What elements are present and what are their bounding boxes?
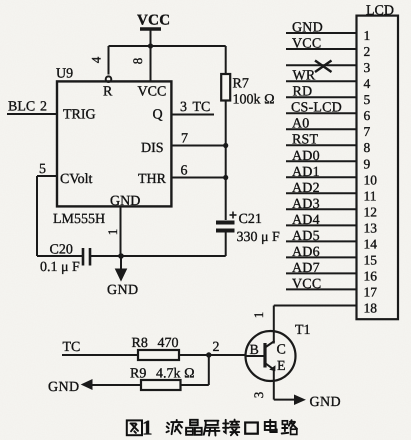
no-connect X on pin3: [315, 61, 332, 73]
wire pin18 to T1 collector: [274, 305, 357, 307]
junction DIS / R7: [223, 143, 228, 148]
wire VCC rail from pin4 to R7: [109, 45, 226, 47]
char kou: [245, 423, 258, 434]
LCD pin numbers 1-18: [364, 28, 378, 315]
svg-text:5: 5: [364, 92, 371, 107]
svg-text:VCC: VCC: [138, 85, 167, 100]
inverter bubble on R pin: [106, 76, 112, 82]
svg-text:T1: T1: [295, 323, 311, 338]
svg-text:R9: R9: [130, 367, 146, 382]
wire pin4 WR: [286, 80, 357, 82]
wire left vertical down from CVolt: [36, 176, 38, 256]
svg-text:RST: RST: [292, 133, 319, 148]
wire Q output pin 3 to TC: [171, 114, 214, 116]
wire R9 to ground arrow: [92, 384, 141, 386]
svg-text:R7: R7: [233, 77, 249, 92]
wire R9 branch vertical: [208, 355, 210, 385]
svg-text:AD7: AD7: [292, 261, 320, 276]
svg-text:17: 17: [364, 284, 378, 299]
svg-text:3: 3: [251, 392, 266, 399]
svg-text:4: 4: [89, 56, 104, 63]
char lu: [282, 420, 297, 434]
wire THR pin 6: [171, 177, 225, 179]
op-amp U9 LM555H body: [57, 81, 171, 206]
svg-text:LM555H: LM555H: [53, 212, 105, 227]
svg-text:R: R: [103, 85, 113, 100]
svg-text:GND: GND: [292, 21, 323, 36]
svg-text:DIS: DIS: [141, 141, 164, 156]
connector LCD box: [357, 16, 399, 320]
svg-text:AD3: AD3: [292, 197, 320, 212]
svg-text:1: 1: [142, 416, 153, 440]
svg-text:AD4: AD4: [292, 213, 320, 228]
capacitor C20: [83, 248, 90, 266]
svg-text:5: 5: [39, 162, 46, 177]
svg-text:TC: TC: [193, 100, 211, 115]
wire BLC input to TRIG pin 2: [7, 113, 57, 115]
svg-text:BLC: BLC: [8, 100, 35, 115]
svg-text:AD0: AD0: [292, 149, 320, 164]
svg-text:A0: A0: [292, 117, 310, 132]
svg-text:B: B: [250, 343, 259, 358]
wire pin13 AD4: [286, 224, 357, 226]
wire pin1 GND: [286, 32, 357, 34]
svg-text:2: 2: [364, 44, 371, 59]
svg-text:Q: Q: [153, 108, 163, 123]
svg-text:RD: RD: [293, 85, 313, 100]
svg-text:7: 7: [181, 132, 188, 147]
svg-text:TRIG: TRIG: [63, 108, 96, 123]
svg-text:LCD: LCD: [366, 4, 394, 19]
svg-text:4.7k Ω: 4.7k Ω: [156, 367, 195, 382]
char dian: [265, 420, 277, 432]
wire T1 collector vertical: [273, 306, 275, 344]
svg-text:6: 6: [181, 164, 188, 179]
svg-text:1: 1: [105, 229, 120, 236]
svg-text:E: E: [277, 359, 286, 374]
wire DIS pin 7: [171, 145, 225, 147]
wire pin7 A0: [286, 128, 357, 130]
svg-text:2: 2: [213, 340, 220, 355]
wire emitter to ground arrow: [274, 399, 294, 401]
wire pin10 AD1: [286, 176, 357, 178]
svg-text:9: 9: [364, 156, 371, 171]
svg-text:AD1: AD1: [292, 165, 320, 180]
svg-text:6: 6: [364, 108, 371, 123]
wire pin9 AD0: [286, 160, 357, 162]
svg-text:GND: GND: [48, 380, 80, 395]
svg-text:330 μ F: 330 μ F: [237, 230, 281, 245]
svg-text:C: C: [277, 343, 286, 358]
svg-text:VCC: VCC: [292, 277, 321, 292]
resistor R8: [138, 350, 179, 360]
junction pin1 / rail: [118, 253, 124, 259]
svg-text:7: 7: [364, 124, 371, 139]
char ye: [167, 420, 183, 434]
svg-text:GND: GND: [110, 194, 140, 209]
svg-text:3: 3: [364, 60, 371, 75]
LCD pin rows: [274, 33, 357, 306]
svg-text:R8: R8: [132, 336, 148, 351]
char jie: [223, 420, 239, 436]
wire pin14 AD5: [286, 240, 357, 242]
C21 plus sign: [230, 212, 237, 219]
wire pin4 stem: [108, 46, 110, 75]
svg-text:8: 8: [130, 58, 145, 65]
svg-text:CVolt: CVolt: [60, 172, 93, 187]
char tu: [127, 420, 142, 435]
svg-text:14: 14: [364, 236, 378, 251]
svg-text:C21: C21: [239, 212, 262, 227]
svg-text:CS-LCD: CS-LCD: [291, 101, 342, 116]
svg-text:470: 470: [158, 336, 179, 351]
svg-text:8: 8: [364, 140, 371, 155]
capacitor C21 electrolytic: [216, 223, 235, 257]
wire CVolt pin 5: [37, 175, 57, 177]
svg-text:2: 2: [40, 100, 47, 115]
svg-text:VCC: VCC: [137, 13, 170, 29]
wire base from junction to T1: [209, 354, 247, 356]
svg-text:10: 10: [364, 172, 378, 187]
ground arrow left: [81, 379, 93, 390]
wire pin17 VCC: [286, 288, 357, 290]
wire T1 emitter down: [273, 381, 275, 400]
junction at VCC stem and rail: [148, 43, 153, 48]
junction THR / R7: [223, 175, 228, 180]
svg-text:13: 13: [364, 220, 378, 235]
svg-text:GND: GND: [310, 395, 342, 410]
svg-text:100k Ω: 100k Ω: [233, 93, 275, 108]
svg-text:TC: TC: [63, 340, 81, 355]
svg-text:3: 3: [180, 100, 187, 115]
svg-text:15: 15: [364, 252, 378, 267]
resistor R7: [221, 46, 230, 220]
svg-text:11: 11: [364, 188, 377, 203]
wire R8 to junction: [179, 354, 209, 356]
svg-text:1: 1: [364, 28, 371, 43]
svg-text:12: 12: [364, 204, 378, 219]
svg-text:AD2: AD2: [292, 181, 320, 196]
wire ground rail left segment: [37, 255, 82, 257]
transistor T1: [246, 331, 296, 381]
wire pin5 RD: [286, 96, 357, 98]
junction base node 2: [206, 352, 211, 357]
svg-text:THR: THR: [138, 172, 167, 187]
resistor R9: [141, 380, 181, 390]
wire pin15 AD6: [286, 256, 357, 258]
svg-text:AD6: AD6: [292, 245, 320, 260]
caption 图1 液晶屏接口电路: [127, 416, 297, 440]
svg-text:AD5: AD5: [292, 229, 320, 244]
wire pin11 AD2: [286, 192, 357, 194]
wire pin3 NC: [286, 64, 357, 66]
svg-text:GND: GND: [107, 283, 139, 298]
svg-text:16: 16: [364, 268, 378, 283]
wire pin8 stem: [150, 46, 152, 81]
wire pin8 RST: [286, 144, 357, 146]
wire pin16 AD7: [286, 272, 357, 274]
wire ground rail right segment: [91, 255, 226, 257]
wire R9 right segment: [181, 384, 209, 386]
svg-text:C20: C20: [50, 243, 73, 258]
svg-text:4: 4: [364, 76, 371, 91]
LCD signal labels: [291, 21, 342, 292]
svg-text:U9: U9: [56, 67, 73, 82]
wire TC to R8: [62, 354, 138, 356]
wire pin6 CS-LCD: [286, 112, 357, 114]
wire pin12 AD3: [286, 208, 357, 210]
ground symbol below C20 rail: [116, 256, 127, 281]
svg-text:VCC: VCC: [292, 37, 321, 52]
svg-text:18: 18: [364, 300, 378, 315]
svg-text:1: 1: [251, 312, 266, 319]
svg-text:0.1 μ F: 0.1 μ F: [40, 260, 80, 275]
wire pin1 stem from GND: [120, 206, 122, 256]
svg-text:WR: WR: [293, 69, 316, 84]
power symbol VCC: [140, 29, 161, 46]
ground arrow right: [294, 395, 306, 406]
wire pin2 VCC: [286, 48, 357, 50]
char jing: [186, 420, 202, 435]
char ping: [204, 421, 220, 436]
